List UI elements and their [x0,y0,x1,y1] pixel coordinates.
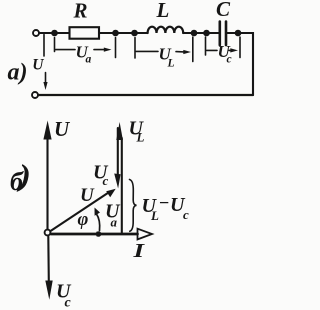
node dot 4 [191,30,198,37]
svg-text:φ: φ [78,210,89,230]
svg-text:а): а) [8,60,28,86]
resistor R [70,27,100,39]
svg-text:с: с [227,54,232,66]
svg-text:а: а [111,215,118,230]
svg-text:с: с [103,173,109,188]
brace UL minus Uc [130,180,137,232]
label Uc down [56,281,72,310]
Ua bracket right tick [115,38,117,58]
svg-text:L: L [156,0,170,22]
svg-text:): ) [16,159,31,193]
UL bracket left tick [134,38,136,59]
svg-text:а: а [86,54,92,66]
svg-text:I: I [132,240,145,262]
Ua arrowhead on axis [97,232,105,237]
UL bracket line [136,50,158,52]
capacitor C plate left [219,22,222,46]
vector U resultant [51,189,116,231]
Uc arrow [229,48,238,52]
terminal top-left [33,30,39,36]
vector Uc down [45,237,52,300]
svg-text:с: с [65,296,72,310]
Uc bracket line [207,49,218,51]
axis U vertical [43,121,51,230]
Uc bracket left tick [205,37,207,55]
Uc bracket right tick [239,37,241,58]
node dot 1 [51,30,58,37]
UL arrow [176,50,191,54]
Ua arrow [94,48,112,52]
wire resistor to inductor [100,32,148,34]
node dot 3 [131,30,138,37]
capacitor C plate right [225,22,228,46]
label Ua phasor [105,201,121,230]
node dot 5 [203,30,210,37]
label UL phasor [129,118,145,145]
tick for U measurement [43,35,45,57]
label Uc phasor [93,162,109,189]
svg-text:C: C [216,0,231,21]
Ua bracket left tick [54,38,56,52]
angle phi arc [95,208,101,231]
svg-text:R: R [73,0,88,23]
label UL minus Uc [142,193,190,224]
axis I horizontal [51,229,152,240]
label Uc top [218,42,232,66]
inductor L [148,27,184,33]
Ua bracket line [56,49,76,51]
svg-text:L: L [136,130,145,145]
node dot 6 [235,30,242,37]
svg-text:L: L [167,58,175,70]
label Ua [76,43,92,66]
svg-text:U: U [32,57,44,74]
svg-text:−: − [159,193,170,213]
wire top from terminal to resistor [40,32,69,34]
svg-text:U: U [54,117,71,141]
arrow U down [43,73,47,91]
bottom return wire [39,94,254,96]
node dot on I axis (Ua tip) [96,231,102,237]
terminal bottom-left [32,92,38,98]
label UL [159,45,175,70]
vector Uc subtraction down [114,128,120,189]
origin node open circle [45,230,51,236]
wire inductor to capacitor [183,32,218,34]
vector UL up [116,122,123,233]
svg-text:U: U [80,185,95,206]
node dot 2 [112,30,119,37]
svg-text:с: с [183,207,189,222]
UL bracket right tick [192,37,194,62]
wire capacitor to right corner and down [227,33,253,95]
